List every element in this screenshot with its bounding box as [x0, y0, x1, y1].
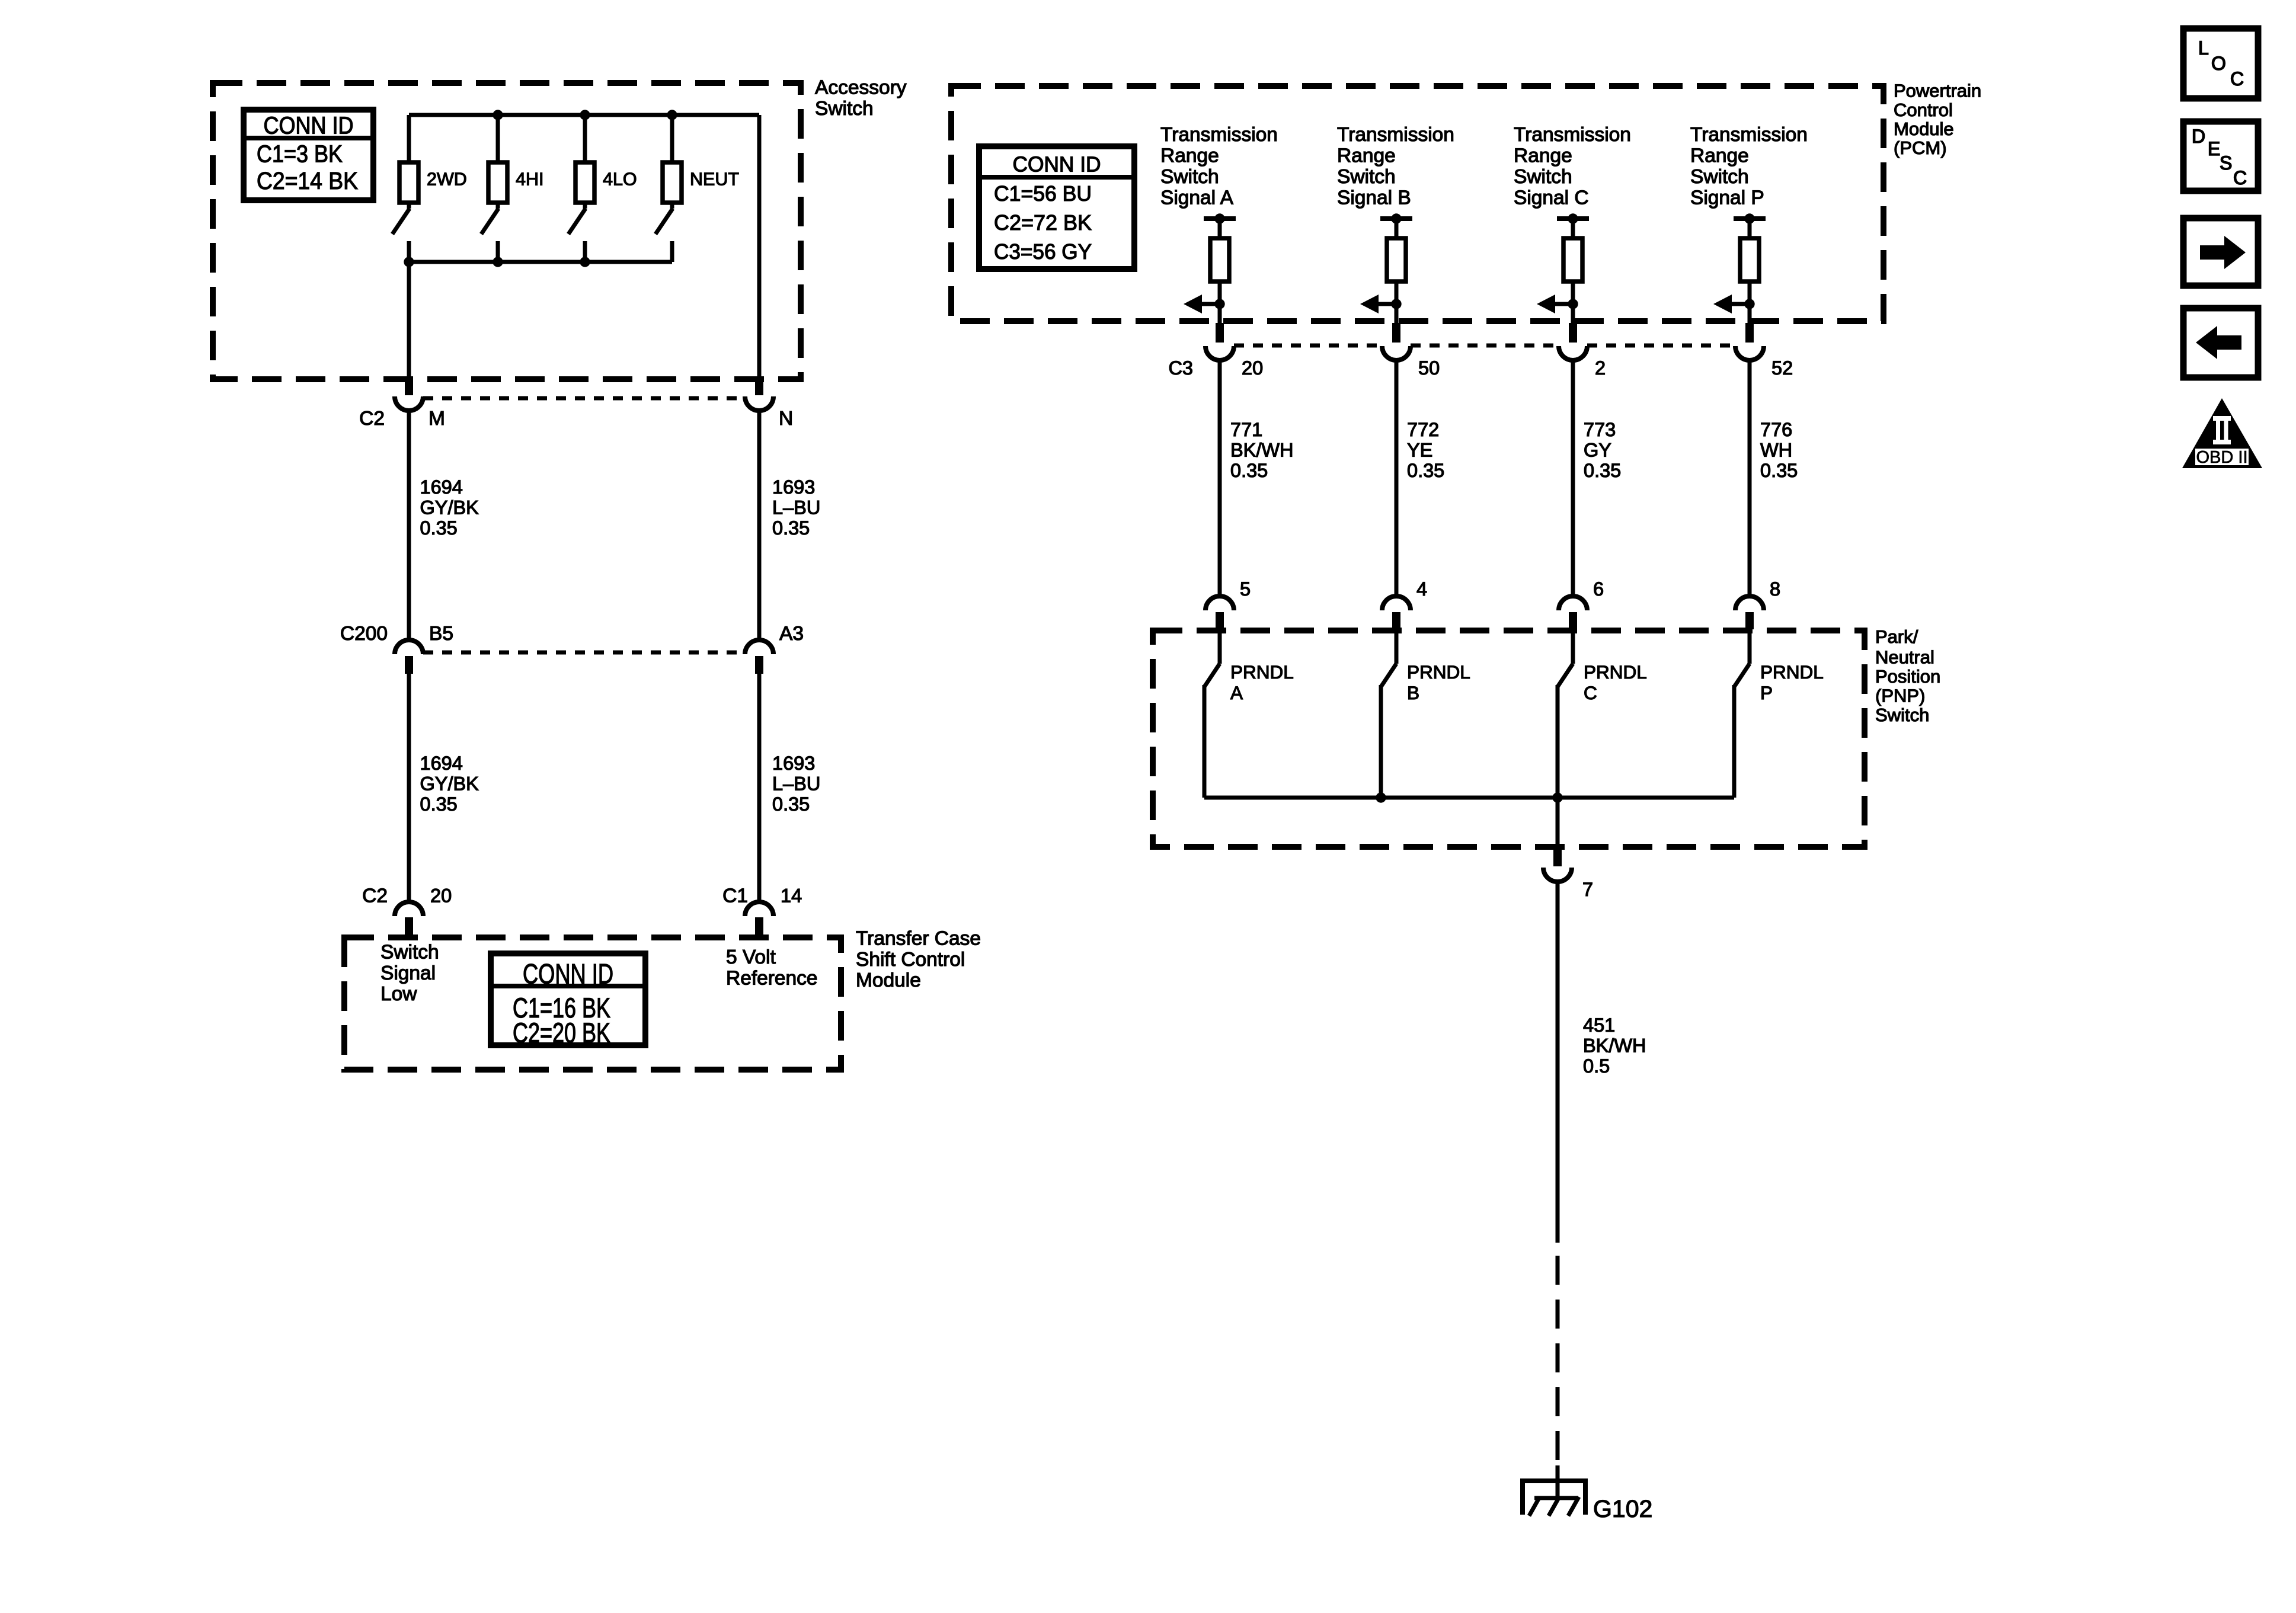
svg-text:Range: Range	[1160, 145, 1219, 167]
svg-text:0.35: 0.35	[1407, 460, 1444, 481]
connector C200 pin B5	[395, 640, 423, 654]
svg-text:20: 20	[430, 885, 452, 907]
svg-text:Position: Position	[1875, 666, 1940, 687]
wire: bar to resistor	[1748, 219, 1752, 238]
svg-text:Range: Range	[1337, 145, 1396, 167]
svg-text:0.35: 0.35	[772, 517, 810, 539]
svg-text:5: 5	[1240, 578, 1251, 600]
svg-text:Transmission: Transmission	[1690, 124, 1808, 146]
wire: resistor to arrow node	[1218, 280, 1222, 333]
svg-text:0.35: 0.35	[772, 793, 810, 815]
switch: PRNDL C	[1571, 627, 1575, 664]
svg-text:L: L	[2198, 37, 2209, 59]
table: CONN ID (PCM)	[979, 146, 1134, 269]
svg-text:Switch: Switch	[380, 942, 439, 964]
svg-text:1694: 1694	[420, 476, 463, 498]
wire: 1693 L-BU segment upper	[757, 411, 762, 640]
connector pin 8 (PNP switch)	[1735, 596, 1764, 610]
arrow: internal signal Signal B	[1377, 302, 1396, 306]
svg-text:Shift Control: Shift Control	[856, 949, 965, 971]
svg-text:C1: C1	[722, 885, 748, 907]
arrow: internal signal Signal P	[1731, 302, 1750, 306]
switch blade: 2WD	[407, 203, 411, 209]
box: Accessory Switch dashed outline	[213, 83, 801, 379]
wire: bar to resistor	[1395, 219, 1399, 238]
svg-text:4LO: 4LO	[603, 169, 637, 190]
connector C3 pin (col 2)	[1569, 323, 1577, 343]
connector pin 5 (PNP switch)	[1205, 596, 1234, 610]
node: arrow junction	[1568, 299, 1578, 309]
icon: OBD II triangle	[2182, 398, 2262, 468]
node: arrow junction	[1744, 299, 1754, 309]
wire: resistor to arrow node	[1571, 280, 1575, 333]
node: top bus junction 4HI	[493, 110, 503, 120]
switch blade: 4HI	[496, 203, 500, 209]
svg-text:OBD II: OBD II	[2196, 448, 2247, 467]
svg-text:52: 52	[1771, 357, 1793, 379]
box: Transfer Case Shift Control Module dashed outline	[344, 937, 841, 1070]
node: bus junction B	[1376, 792, 1386, 802]
svg-text:PRNDL: PRNDL	[1584, 661, 1647, 683]
svg-text:20: 20	[1242, 357, 1263, 379]
svg-text:L–BU: L–BU	[772, 773, 820, 794]
resistor: PCM pull-up Signal C	[1563, 238, 1582, 281]
svg-text:0.35: 0.35	[1760, 460, 1798, 481]
svg-text:C2=72 BK: C2=72 BK	[994, 210, 1092, 235]
svg-text:Low: Low	[380, 983, 417, 1005]
svg-text:Signal: Signal	[380, 962, 436, 984]
wire: 1694 GY/BK segment lower	[407, 674, 411, 902]
svg-text:(PCM): (PCM)	[1894, 137, 1947, 158]
wire: lower contact 4LO	[583, 241, 587, 262]
svg-text:776: 776	[1760, 419, 1792, 440]
svg-text:0.35: 0.35	[420, 517, 458, 539]
svg-text:O: O	[2211, 53, 2226, 74]
wire: bar to resistor	[1218, 219, 1222, 238]
svg-text:BK/WH: BK/WH	[1230, 439, 1294, 460]
resistor: 4HI	[488, 162, 507, 203]
svg-text:Switch: Switch	[815, 98, 874, 120]
switch: PRNDL P	[1748, 627, 1752, 664]
wire: 776 WH	[1748, 360, 1752, 596]
wire: accessory bottom bus	[409, 260, 672, 264]
svg-text:NEUT: NEUT	[690, 169, 739, 190]
wire: drop to resistor 4HI	[496, 115, 500, 162]
svg-text:771: 771	[1230, 419, 1262, 440]
resistor: 2WD	[399, 162, 418, 203]
svg-text:Range: Range	[1690, 145, 1749, 167]
svg-text:C200: C200	[340, 623, 388, 645]
svg-text:0.35: 0.35	[420, 793, 458, 815]
svg-text:G102: G102	[1593, 1495, 1652, 1522]
svg-text:C2: C2	[362, 885, 388, 907]
svg-text:S: S	[2220, 152, 2232, 174]
svg-text:4HI: 4HI	[516, 169, 543, 190]
svg-text:2WD: 2WD	[427, 169, 467, 190]
node: top bus junction NEUT	[667, 110, 677, 120]
connector C3 pin (col 3)	[1745, 323, 1754, 343]
icon: back arrow box	[2183, 308, 2258, 377]
svg-text:773: 773	[1584, 419, 1616, 440]
wire: 773 GY	[1571, 360, 1575, 596]
svg-text:A3: A3	[779, 623, 804, 645]
wire: 771 BK/WH	[1218, 360, 1222, 596]
box: Park/Neutral Position (PNP) Switch dashed outline	[1153, 631, 1865, 847]
connector C3 pin (col 0)	[1216, 323, 1224, 343]
switch blade: 4LO	[583, 203, 587, 209]
wire: M column down from bottom bus	[407, 262, 411, 377]
connector C2 pin 20 (transfer case)	[395, 902, 423, 916]
svg-text:Switch: Switch	[1337, 166, 1396, 188]
svg-text:451: 451	[1583, 1014, 1615, 1036]
connector C200 pin A3	[745, 640, 773, 654]
node: arrow junction	[1214, 299, 1224, 309]
resistor: PCM pull-up Signal A (top bar)	[1204, 216, 1236, 221]
wire: lower contact NEUT	[670, 241, 674, 262]
wire: drop to resistor 4LO	[583, 115, 587, 162]
svg-text:Control: Control	[1894, 100, 1953, 120]
svg-text:4: 4	[1416, 578, 1427, 600]
svg-text:PRNDL: PRNDL	[1760, 661, 1824, 683]
connector pin M (C2)	[405, 377, 413, 395]
connector pin 6 (PNP switch)	[1559, 596, 1587, 610]
svg-text:6: 6	[1593, 578, 1604, 600]
svg-text:Range: Range	[1514, 145, 1572, 167]
svg-text:L–BU: L–BU	[772, 497, 820, 518]
icon: DESC box	[2183, 121, 2258, 191]
node: top bus junction 4LO	[580, 110, 590, 120]
svg-text:PRNDL: PRNDL	[1407, 661, 1470, 683]
svg-text:14: 14	[781, 885, 802, 907]
wire: resistor to arrow node	[1395, 280, 1399, 333]
resistor: PCM pull-up Signal P	[1740, 238, 1759, 281]
svg-text:8: 8	[1770, 578, 1780, 600]
svg-text:Transmission: Transmission	[1160, 124, 1278, 146]
wire: 451 BK/WH dashed segment	[1556, 1256, 1560, 1465]
svg-text:2: 2	[1595, 357, 1606, 379]
svg-text:C3: C3	[1168, 357, 1193, 379]
wire: 451 BK/WH solid segment	[1556, 882, 1560, 1243]
svg-text:C1=56 BU: C1=56 BU	[994, 181, 1092, 206]
svg-text:Neutral: Neutral	[1875, 647, 1934, 667]
wire: common to pin 7	[1556, 798, 1560, 851]
svg-text:Signal A: Signal A	[1160, 187, 1234, 209]
resistor: PCM pull-up Signal P (top bar)	[1734, 216, 1766, 221]
wire: bar to resistor	[1571, 219, 1575, 238]
svg-text:(PNP): (PNP)	[1875, 686, 1925, 706]
resistor: NEUT	[663, 162, 682, 203]
wire: PNP common bus	[1204, 796, 1734, 800]
svg-text:C: C	[1584, 682, 1597, 703]
svg-text:GY: GY	[1584, 439, 1611, 460]
svg-text:YE: YE	[1407, 439, 1432, 460]
svg-text:772: 772	[1407, 419, 1439, 440]
svg-text:B5: B5	[429, 623, 453, 645]
svg-text:Switch: Switch	[1690, 166, 1749, 188]
node: bottom bus junction 4HI	[493, 257, 503, 267]
svg-text:Module: Module	[856, 969, 921, 991]
svg-text:P: P	[1760, 682, 1773, 703]
svg-text:50: 50	[1418, 357, 1440, 379]
wire: 772 YE	[1395, 360, 1399, 596]
svg-text:GY/BK: GY/BK	[420, 497, 479, 518]
svg-text:B: B	[1407, 682, 1419, 703]
wire: drop to resistor NEUT	[670, 115, 674, 162]
svg-text:1693: 1693	[772, 476, 815, 498]
resistor: PCM pull-up Signal B	[1387, 238, 1406, 281]
connector pin 4 (PNP switch)	[1382, 596, 1411, 610]
resistor: 4LO	[575, 162, 594, 203]
wire: 1693 L-BU segment lower	[757, 674, 762, 902]
svg-text:C2=20 BK: C2=20 BK	[513, 1017, 610, 1048]
table: CONN ID (Accessory Switch)	[244, 110, 373, 200]
arrow: internal signal Signal A	[1201, 302, 1220, 306]
svg-text:Transmission: Transmission	[1514, 124, 1631, 146]
dotted connector line M-N	[423, 396, 745, 401]
switch blade: NEUT	[670, 203, 674, 209]
svg-text:PRNDL: PRNDL	[1230, 661, 1294, 683]
svg-text:WH: WH	[1760, 439, 1792, 460]
svg-text:CONN ID: CONN ID	[1013, 152, 1101, 176]
svg-text:Reference: Reference	[726, 968, 818, 990]
icon: forward arrow box	[2183, 218, 2258, 286]
svg-text:Transmission: Transmission	[1337, 124, 1454, 146]
svg-text:Switch: Switch	[1160, 166, 1219, 188]
svg-text:5 Volt: 5 Volt	[726, 946, 776, 968]
resistor: PCM pull-up Signal A	[1210, 238, 1229, 281]
icon: LOC box	[2183, 28, 2258, 98]
connector pin N	[755, 377, 763, 395]
svg-text:A: A	[1230, 682, 1243, 703]
svg-text:GY/BK: GY/BK	[420, 773, 479, 794]
svg-text:C: C	[2233, 167, 2247, 188]
svg-text:C: C	[2230, 68, 2244, 89]
svg-text:Switch: Switch	[1875, 705, 1929, 725]
svg-text:1694: 1694	[420, 753, 463, 774]
svg-text:Signal P: Signal P	[1690, 187, 1764, 209]
table: CONN ID (Transfer Case)	[491, 953, 645, 1045]
svg-text:Transfer Case: Transfer Case	[856, 928, 981, 950]
wire: drop to resistor 2WD	[407, 115, 411, 162]
svg-text:C3=56 GY: C3=56 GY	[994, 239, 1092, 264]
svg-text:Signal C: Signal C	[1514, 187, 1589, 209]
wire: accessory top bus	[409, 113, 759, 117]
wire: lower contact 4HI	[496, 241, 500, 262]
dotted connector line B5-A3	[423, 651, 745, 655]
connector pin 7	[1553, 849, 1562, 866]
box: Powertrain Control Module dashed outline	[951, 86, 1884, 321]
svg-text:M: M	[428, 408, 445, 430]
svg-text:Accessory: Accessory	[815, 77, 907, 99]
wire: resistor to arrow node	[1748, 280, 1752, 333]
svg-text:CONN ID: CONN ID	[264, 111, 354, 139]
node: bus junction C	[1552, 792, 1562, 802]
svg-text:CONN ID: CONN ID	[523, 958, 613, 990]
connector C3 pin (col 1)	[1392, 323, 1400, 343]
svg-text:Powertrain: Powertrain	[1894, 81, 1981, 101]
arrow: internal signal Signal C	[1554, 302, 1573, 306]
svg-text:N: N	[779, 408, 793, 430]
svg-text:0.35: 0.35	[1230, 460, 1268, 481]
svg-text:C2: C2	[359, 408, 385, 430]
svg-text:BK/WH: BK/WH	[1583, 1035, 1646, 1056]
dotted connector line C3 row	[1234, 344, 1382, 348]
svg-text:Signal B: Signal B	[1337, 187, 1411, 209]
svg-text:1693: 1693	[772, 753, 815, 774]
wire: 1694 GY/BK segment upper	[407, 411, 411, 640]
switch: PRNDL A	[1218, 627, 1222, 664]
svg-text:0.5: 0.5	[1583, 1055, 1610, 1077]
svg-text:Park/: Park/	[1875, 626, 1918, 647]
svg-text:Module: Module	[1894, 119, 1954, 139]
node: arrow junction	[1391, 299, 1401, 309]
svg-text:C1=3 BK: C1=3 BK	[257, 140, 343, 168]
wire: N column down from top bus	[757, 115, 762, 377]
node: bottom bus junction 4LO	[580, 257, 590, 267]
resistor: PCM pull-up Signal B (top bar)	[1380, 216, 1412, 221]
resistor: PCM pull-up Signal C (top bar)	[1557, 216, 1589, 221]
svg-text:Switch: Switch	[1514, 166, 1572, 188]
wire: lower contact 2WD	[407, 241, 411, 262]
ground G102 symbol	[1556, 1465, 1560, 1498]
node: bottom bus junction 2WD	[404, 257, 414, 267]
svg-text:7: 7	[1582, 879, 1593, 900]
svg-text:E: E	[2208, 138, 2220, 159]
switch: PRNDL B	[1395, 627, 1399, 664]
svg-text:0.35: 0.35	[1584, 460, 1621, 481]
svg-text:C2=14 BK: C2=14 BK	[257, 167, 358, 194]
connector C1 pin 14 (transfer case)	[745, 902, 773, 916]
svg-text:D: D	[2192, 126, 2205, 147]
